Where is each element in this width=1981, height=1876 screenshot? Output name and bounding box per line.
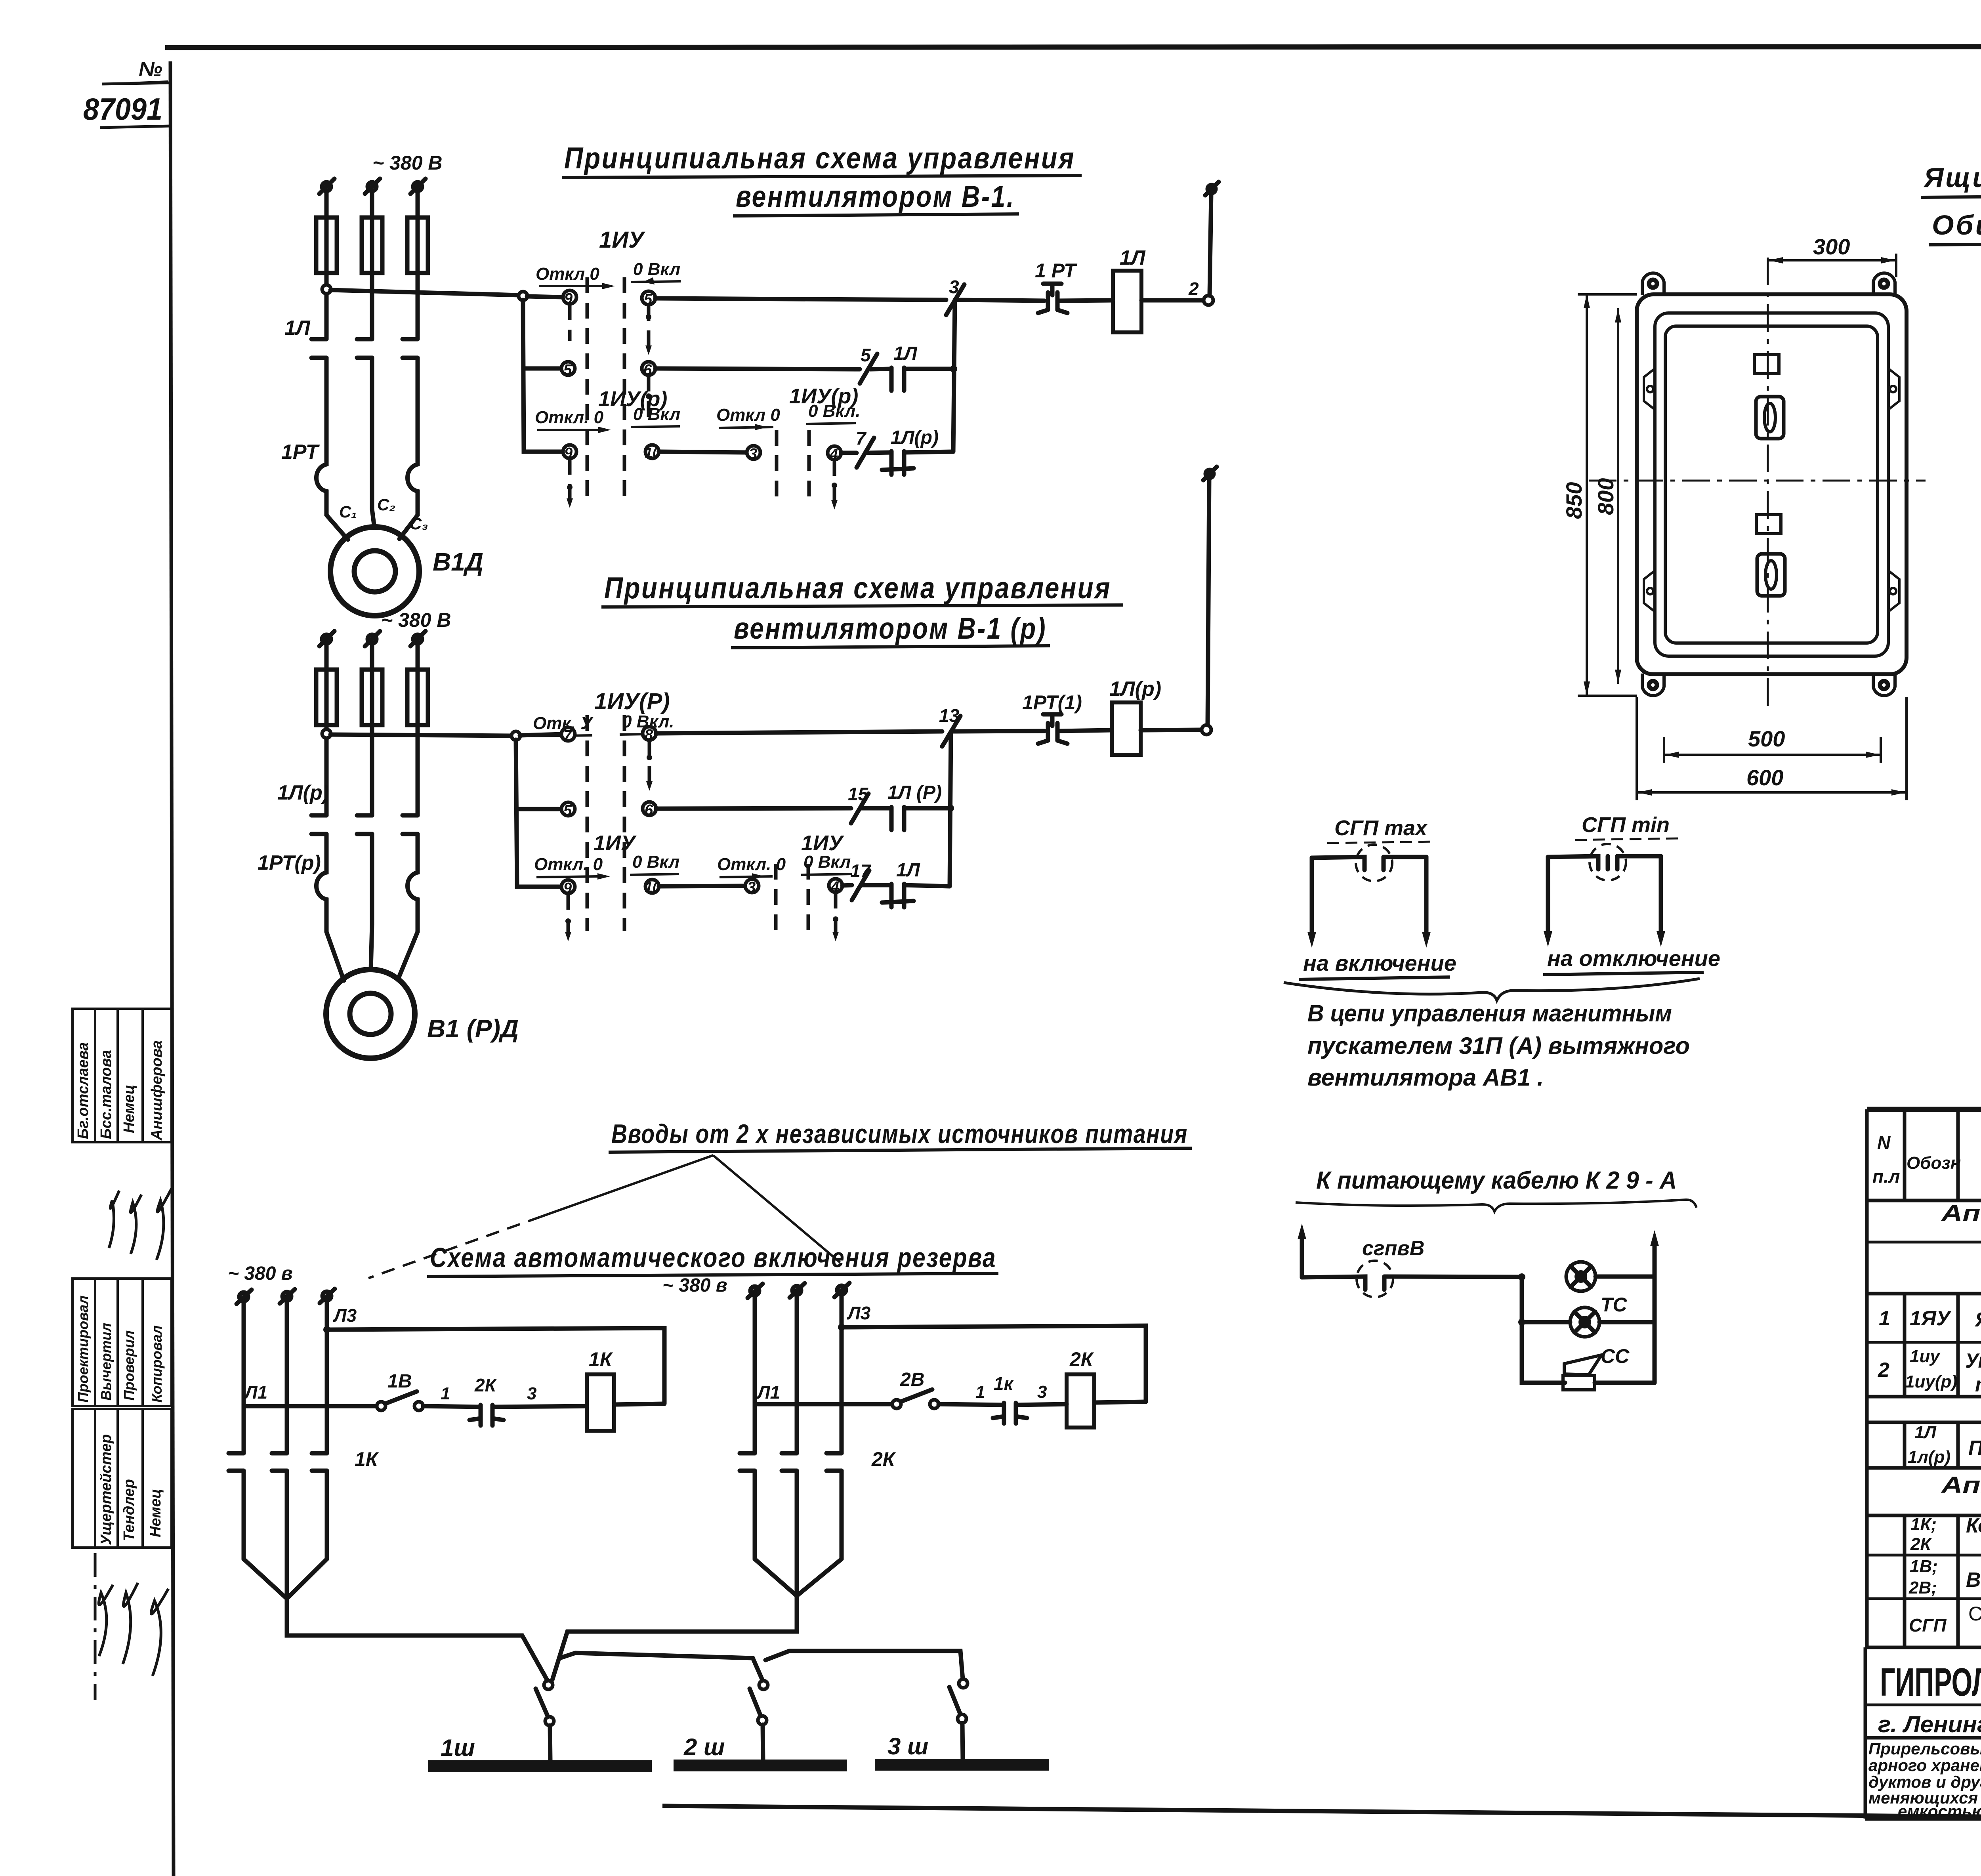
svg-text:1РТ(1): 1РТ(1) — [1022, 691, 1082, 714]
terminal circle 4 row3 — [828, 446, 841, 463]
wire to 1L aux contact row2 — [870, 369, 891, 369]
wire coil to loop — [614, 1404, 664, 1405]
row1 texts — [1879, 1300, 1981, 1342]
position label 0 Vkl row3 right — [806, 401, 860, 424]
svg-text:1Л: 1Л — [1914, 1423, 1936, 1442]
SGP min left drop arrow — [1544, 857, 1552, 947]
caption K pitayushchemu kabelyu — [1296, 1167, 1697, 1212]
fuse F3 — [407, 218, 428, 273]
wire lamp SS to right rail — [1599, 1320, 1655, 1324]
svg-text:87091: 87091 — [83, 92, 162, 126]
svg-text:1ИУ: 1ИУ — [599, 227, 645, 253]
stamp signatures band 2 — [109, 1189, 172, 1260]
stub under term4 row3 — [832, 460, 837, 503]
wire tap to node f2 — [330, 735, 512, 736]
svg-text:1: 1 — [441, 1384, 450, 1403]
loop wire L3 to coil right B — [842, 1326, 1146, 1401]
row1 wire to contact 3 — [655, 298, 946, 300]
svg-text:Бг.отслаева: Бг.отслаева — [75, 1042, 92, 1139]
dashed rail B c2 — [623, 715, 626, 931]
svg-text:1ш: 1ш — [441, 1735, 475, 1761]
svg-text:Тендлер: Тендлер — [121, 1479, 137, 1541]
svg-text:2: 2 — [1188, 279, 1199, 299]
svg-text:Откл 0: Откл 0 — [536, 264, 599, 284]
svg-text:арного хранения нефтепро-: арного хранения нефтепро- — [1868, 1756, 1981, 1775]
mounting lug top-right — [1873, 273, 1895, 295]
position label 0 Vkl row1 — [631, 260, 681, 284]
fuse F4 — [316, 670, 337, 725]
right rail K29 — [1653, 1277, 1657, 1383]
feed wire to switch 2sh — [560, 1653, 763, 1681]
thermal contact 1RT(1) — [1038, 714, 1067, 744]
svg-text:В1 (Р)Д: В1 (Р)Д — [427, 1014, 519, 1043]
caption na otklyuchenie — [1543, 946, 1720, 975]
SGP max left drop arrow — [1307, 858, 1316, 948]
wire phase C to contact f2 — [416, 725, 420, 815]
thermal element 1RT(r) phase A — [317, 868, 327, 924]
motor V1D — [330, 527, 419, 616]
contactor 1L(r) pole C — [403, 815, 418, 868]
caption Vvody ot 2x istochnikov — [609, 1119, 1192, 1152]
wire phase A to contact — [324, 273, 329, 339]
wire coil to node f2 — [1141, 730, 1202, 730]
wire phase B to contact f2 — [370, 725, 374, 815]
svg-text:пускателем 31П (А) вытяжного: пускателем 31П (А) вытяжного — [1307, 1032, 1690, 1059]
bottom sheet border — [662, 1806, 1981, 1823]
wire node to term9 — [527, 296, 563, 297]
wire after 2V — [939, 1404, 1004, 1405]
phase line A3 — [325, 1300, 329, 1453]
terminal circle 5 row1 right — [642, 291, 655, 308]
row4 texts — [1910, 1514, 1981, 1557]
svg-text:1В: 1В — [387, 1371, 412, 1392]
row2 branch from rail f2 — [517, 807, 562, 811]
feed wire to switch 3sh — [765, 1651, 963, 1679]
busbar 2sh — [674, 1760, 847, 1771]
svg-text:2В;: 2В; — [1908, 1578, 1937, 1597]
svg-text:Принципиальная схема управлени: Принципиальная схема управления — [604, 571, 1111, 605]
junction dot L3 tap — [323, 1326, 330, 1333]
dashed rail A c2 — [586, 715, 589, 931]
terminal circle 5 row2 c2 — [561, 802, 575, 819]
svg-text:Л1: Л1 — [244, 1382, 267, 1403]
svg-text:Схема автоматического включе: Схема автоматического включения резерва — [430, 1242, 996, 1273]
disconnect switch bus3 — [949, 1679, 968, 1760]
svg-text:Немец: Немец — [121, 1085, 137, 1133]
loop wire L3 to coil right — [327, 1328, 664, 1403]
inventory number 87091 box — [83, 83, 170, 128]
left margin stamp box 4 — [73, 1409, 172, 1548]
terminal L3 feeder2 — [410, 631, 426, 646]
wire lamp TS to right rail — [1595, 1275, 1655, 1279]
svg-text:Пускатель магнитный: Пускатель магнитный — [1968, 1437, 1981, 1460]
wire to 1L aux row3 c2 — [862, 883, 891, 887]
wire row3 to right rail — [904, 452, 953, 452]
position label Otkl.0 row3 c2 right — [717, 855, 786, 880]
row1 wire to contact 13 — [656, 731, 942, 733]
phase line A1 — [242, 1301, 246, 1453]
label SGP max — [1327, 816, 1436, 843]
stub under term8 row1 c2 — [647, 740, 652, 784]
breaker contact 17 — [850, 861, 872, 900]
svg-text:Обозн: Обозн — [1907, 1153, 1961, 1173]
position label Otkl 0 row1 — [536, 264, 615, 289]
mounting lug bottom-left — [1642, 674, 1664, 696]
aux contact 1L row2 — [891, 368, 904, 391]
terminal circle 8 row1 c2 — [643, 727, 656, 743]
svg-text:7: 7 — [563, 727, 573, 744]
door hinge tab right-bottom — [1888, 571, 1899, 612]
position label Otkl.0 row3 c2 left — [534, 855, 610, 880]
centerline horizontal front view — [1589, 480, 1926, 482]
control row branch A — [244, 1404, 376, 1408]
mounting lug top-left — [1642, 273, 1664, 295]
svg-text:0 Вкл: 0 Вкл — [632, 852, 679, 872]
terminal A2 — [280, 1289, 295, 1303]
junction control tap — [322, 285, 331, 294]
terminal B1 — [748, 1284, 763, 1298]
wire phase A upper f2 — [324, 643, 329, 670]
svg-text:2К: 2К — [1069, 1348, 1094, 1370]
row3 texts — [1908, 1423, 1981, 1467]
stamp box 1 rotated names — [75, 1040, 165, 1141]
row2 texts — [1878, 1347, 1981, 1396]
underbrace SGP — [1284, 979, 1700, 1000]
svg-text:3 ш: 3 ш — [887, 1733, 928, 1760]
riser to terminal 2 — [1210, 193, 1211, 296]
svg-text:СГП mіn: СГП mіn — [1582, 813, 1670, 837]
svg-text:1ЯУ: 1ЯУ — [1910, 1307, 1952, 1330]
row2 branch from rail — [523, 366, 562, 371]
row3 wire to contact 7 — [841, 451, 857, 455]
branch down to horn row — [1522, 1322, 1565, 1383]
svg-text:0 Вкл.: 0 Вкл. — [808, 401, 860, 421]
svg-text:1Л: 1Л — [896, 860, 920, 881]
spec table grid — [1867, 1109, 1981, 1647]
svg-text:Универсальный переключа-: Универсальный переключа- — [1965, 1349, 1981, 1372]
contactor 1L(r) pole B — [357, 815, 372, 924]
dim 500 bottom — [1664, 726, 1881, 763]
svg-text:1К: 1К — [589, 1348, 613, 1370]
right rail circuit2 — [950, 731, 951, 886]
svg-text:1Л: 1Л — [284, 317, 311, 340]
dim 300 top — [1768, 234, 1896, 277]
stub arrowheads — [565, 345, 839, 941]
phase line B1 — [753, 1295, 757, 1453]
horn annunciator — [1564, 1355, 1601, 1375]
contactor 2K pole B — [782, 1453, 797, 1596]
svg-text:1к: 1к — [994, 1373, 1014, 1394]
svg-text:800: 800 — [1593, 478, 1618, 515]
contactor 1L pole C — [403, 339, 418, 460]
contactor 2K pole C — [826, 1453, 842, 1559]
svg-text:Вычертил: Вычертил — [98, 1323, 114, 1401]
contactor 1L pole B — [357, 339, 372, 509]
disconnect switch bus1 — [536, 1681, 554, 1761]
svg-text:1Л(р): 1Л(р) — [891, 427, 939, 448]
svg-text:600: 600 — [1746, 765, 1783, 790]
title box drawing line1 — [1921, 162, 1981, 197]
terminal L1 feeder1 — [319, 179, 334, 194]
dim 600 bottom — [1637, 697, 1907, 800]
junction dot row2 rail — [950, 365, 957, 372]
svg-text:Аппараты схемы автоматического: Аппараты схемы автоматического включения — [1940, 1200, 1981, 1226]
svg-text:2: 2 — [1878, 1359, 1889, 1382]
svg-text:1РТ(р): 1РТ(р) — [258, 851, 321, 874]
terminal top right circuit1 — [1205, 182, 1219, 195]
svg-text:Л3: Л3 — [847, 1303, 871, 1323]
svg-text:сгпвВ: сгпвВ — [1362, 1237, 1424, 1260]
wire to 1L(R) aux row3 — [867, 452, 891, 453]
contactor 1L pole A — [311, 339, 326, 460]
wire to coil 1K — [492, 1406, 587, 1407]
wire phase A upper — [324, 191, 329, 218]
row5 texts — [1908, 1557, 1981, 1597]
title box drawing line2 — [1929, 210, 1981, 245]
wire coil to node2 — [1141, 298, 1204, 303]
wire row2 to right rail c2 — [904, 806, 951, 811]
svg-text:№: № — [139, 58, 162, 81]
wire after 1V — [423, 1406, 481, 1407]
contactor 1K pole A — [229, 1453, 244, 1559]
svg-text:3: 3 — [749, 446, 757, 462]
top sheet border — [165, 46, 1981, 48]
svg-text:5: 5 — [563, 362, 572, 378]
svg-text:тель.: тель. — [1975, 1373, 1981, 1396]
position label 0 Vkl row3 c2 left — [630, 852, 679, 875]
position label 0 Vkl row1 c2 — [620, 712, 674, 735]
stub under term6 row2 — [646, 376, 651, 420]
title schematic V-1 line1 — [562, 141, 1082, 177]
row2 wire to contact 15 — [656, 808, 851, 809]
position label 0 Vkl row3 left — [631, 405, 680, 427]
aux contact 1K — [993, 1403, 1027, 1424]
stub under term9 row3 c2 — [565, 894, 571, 935]
svg-text:Л3: Л3 — [333, 1305, 357, 1326]
row3 wire to contact 17 — [842, 885, 852, 886]
svg-text:К питающему кабелю К 2 9 - А: К питающему кабелю К 2 9 - А — [1316, 1167, 1677, 1194]
control row branch B — [755, 1402, 892, 1407]
contactor 1K pole C — [312, 1453, 327, 1559]
thermal contact 1RT control — [1038, 284, 1067, 313]
door hinge tab left-bottom — [1644, 571, 1655, 612]
svg-text:5: 5 — [563, 802, 572, 819]
svg-text:C₁: C₁ — [339, 502, 357, 521]
row3 wire between blocks — [659, 452, 747, 452]
wire phase C upper — [416, 191, 420, 218]
wire row3 to right rail c2 — [904, 885, 950, 886]
svg-text:Ущертейстер: Ущертейстер — [98, 1434, 115, 1545]
SGP min right drop arrow — [1657, 856, 1665, 947]
breaker contact 13 — [939, 705, 960, 746]
box front door frame — [1655, 313, 1888, 656]
contactor 1K pole B — [272, 1453, 287, 1599]
aux contact 1L row3 c2 — [882, 884, 914, 907]
svg-text:Копировал: Копировал — [149, 1325, 165, 1403]
box front outer frame — [1637, 294, 1907, 674]
contactor 1L(r) pole A — [311, 815, 326, 868]
branch down from junction — [1520, 1277, 1524, 1322]
terminal L2 feeder2 — [365, 631, 380, 646]
mounting lug bottom-right — [1873, 674, 1895, 696]
SGP max right drop arrow — [1422, 857, 1431, 948]
aux contact 1L(R) row3 — [882, 451, 914, 475]
coil 1K — [587, 1374, 614, 1431]
svg-text:300: 300 — [1813, 234, 1850, 259]
junction dot K29 row2 — [1518, 1319, 1525, 1326]
svg-text:Прирельсовый склад резерву-: Прирельсовый склад резерву- — [1868, 1739, 1981, 1758]
switch handle upper — [1756, 397, 1784, 439]
left riser with up arrow — [1298, 1223, 1306, 1277]
svg-text:Откл 0: Откл 0 — [716, 405, 780, 425]
wire sensor to junction — [1384, 1277, 1522, 1277]
svg-text:Ящик протяжной: Ящик протяжной — [1974, 1308, 1981, 1331]
terminal circle 6 row2 — [642, 362, 655, 378]
label SGP min — [1575, 813, 1680, 840]
breaker contact 5 row2 — [860, 345, 877, 384]
row2 wire to contact 5 — [655, 368, 860, 369]
contactor 2K pole A — [740, 1453, 755, 1559]
svg-text:1Л (Р): 1Л (Р) — [887, 782, 942, 803]
terminal circle 3 row3 c2 — [745, 879, 759, 896]
breaker contact 7 — [856, 428, 874, 468]
No mark — [130, 58, 168, 83]
svg-text:~ 380 в: ~ 380 в — [662, 1275, 727, 1296]
svg-text:15: 15 — [848, 784, 869, 804]
svg-text:1ИУ: 1ИУ — [594, 831, 637, 855]
svg-text:вентилятора АВ1 .: вентилятора АВ1 . — [1307, 1064, 1544, 1091]
aux contact 2K — [469, 1405, 504, 1426]
caption na vklyuchenie — [1299, 950, 1456, 979]
svg-text:3: 3 — [949, 277, 959, 297]
terminal circle 4 row3 c2 — [829, 879, 842, 895]
svg-text:г. Ленинград 1975 г: г. Ленинград 1975 г — [1878, 1712, 1981, 1737]
svg-text:1иу(р): 1иу(р) — [1905, 1372, 1957, 1391]
svg-text:вентилятором В-1.: вентилятором В-1. — [736, 180, 1015, 214]
svg-text:1Л(р): 1Л(р) — [1109, 677, 1161, 700]
left sheet border — [170, 61, 174, 1876]
dim 800 left — [1593, 308, 1621, 684]
position label 0 Vkl row3 c2 right — [801, 852, 852, 875]
junction control tap f2 — [322, 729, 331, 738]
position label Otkl 0 row3 right — [716, 405, 780, 430]
svg-text:В1Д: В1Д — [433, 548, 483, 576]
switch 1V — [377, 1391, 423, 1410]
breaker contact 15 — [848, 784, 869, 823]
title AVR — [427, 1242, 998, 1277]
svg-text:3: 3 — [1037, 1382, 1047, 1402]
stamp box 3 rotated roles — [75, 1296, 165, 1403]
svg-text:Принципиальная схема управлени: Принципиальная схема управления — [564, 141, 1075, 175]
svg-text:на отключение: на отключение — [1547, 946, 1720, 971]
switch 2V — [892, 1389, 939, 1408]
busbar 3sh — [875, 1759, 1049, 1771]
wire phase C upper f2 — [416, 643, 420, 670]
wire tap to node — [330, 290, 519, 295]
wire row2 to right rail — [904, 367, 952, 371]
thermal element 1RT(r) phase C — [408, 868, 418, 924]
svg-text:Откл. 0: Откл. 0 — [534, 855, 603, 874]
title schematic V-1(R) line2 — [731, 612, 1050, 648]
svg-text:1: 1 — [1879, 1307, 1890, 1330]
svg-text:СС: СС — [1601, 1345, 1630, 1367]
right riser with up arrow — [1650, 1230, 1659, 1277]
wire contact3 to 1RT — [956, 300, 1044, 301]
wire 1RT to coil — [1059, 300, 1113, 301]
motor leads into V1(R)D — [326, 924, 418, 981]
stamp signatures band 5 — [95, 1553, 168, 1700]
wire phase C to contact — [416, 273, 420, 339]
fuse F2 — [362, 218, 382, 273]
svg-text:1Л: 1Л — [893, 343, 918, 364]
switch window lower — [1756, 515, 1781, 534]
lamp TS — [1566, 1262, 1595, 1291]
right rail circuit1 — [953, 300, 955, 452]
wire to coil 2K — [1016, 1404, 1067, 1405]
svg-text:~ 380 В: ~ 380 В — [372, 152, 443, 174]
svg-text:п.л: п.л — [1872, 1166, 1900, 1187]
node 2 circle — [1188, 279, 1213, 305]
wire 1RT(1) to coil — [1059, 730, 1112, 731]
svg-text:7: 7 — [856, 428, 867, 448]
section band A — [1940, 1200, 1981, 1246]
left margin stamp box 3 — [73, 1279, 172, 1406]
svg-text:500: 500 — [1748, 726, 1785, 751]
terminal L1 feeder2 — [319, 631, 334, 646]
svg-text:ТС: ТС — [1601, 1294, 1628, 1316]
svg-text:C₂: C₂ — [377, 495, 395, 514]
svg-text:2В: 2В — [900, 1369, 924, 1390]
left rail down f2 — [516, 740, 563, 887]
svg-text:3: 3 — [747, 879, 756, 896]
coil 1L — [1113, 271, 1141, 332]
svg-text:1ИУ(Р): 1ИУ(Р) — [594, 689, 670, 714]
svg-text:В цепи управления магнитным: В цепи управления магнитным — [1307, 1000, 1672, 1027]
switch handle lower — [1757, 554, 1785, 596]
svg-text:Откл. 0: Откл. 0 — [535, 408, 604, 427]
stub under term9 row3 — [567, 459, 573, 501]
terminal circle 9 row3 c2 — [561, 880, 575, 897]
stamp box 4 rotated names — [98, 1434, 164, 1545]
motor V1(R)D — [326, 969, 415, 1058]
sensor SGP max symbol — [1312, 845, 1426, 881]
title schematic V-1(R) line1 — [601, 571, 1123, 607]
svg-text:1Л(р): 1Л(р) — [277, 781, 329, 804]
terminal circle 10 row3 c2 — [645, 879, 660, 895]
motor leads into V1D — [326, 509, 418, 540]
terminal circle 9 row3 — [563, 445, 576, 462]
svg-text:13: 13 — [939, 705, 960, 726]
header texts — [1872, 1131, 1981, 1187]
terminal B3 — [834, 1283, 849, 1297]
row3 wire between blocks c2 — [659, 886, 746, 886]
svg-text:Выключатель пакетный: Выключатель пакетный — [1966, 1569, 1981, 1592]
svg-text:N: N — [1877, 1132, 1891, 1153]
dashed rail D c2 — [807, 864, 810, 931]
terminal circle 10 row3 — [645, 445, 660, 461]
terminal circle 3 row3 — [747, 446, 760, 462]
object description small — [1868, 1739, 1981, 1821]
door hinge tab left-top — [1644, 368, 1655, 410]
svg-text:Общий вид м 1:10: Общий вид м 1:10 — [1932, 210, 1981, 240]
svg-text:0 Вкл: 0 Вкл — [803, 852, 851, 872]
converge branch B — [552, 1559, 842, 1680]
centerline vertical front view — [1767, 258, 1769, 709]
aux contact 1L(R) row2 c2 — [891, 807, 904, 830]
svg-text:Откл. 0: Откл. 0 — [717, 855, 786, 874]
terminal A1 — [237, 1290, 252, 1304]
position label Otkl.0 row3 left — [535, 408, 611, 433]
